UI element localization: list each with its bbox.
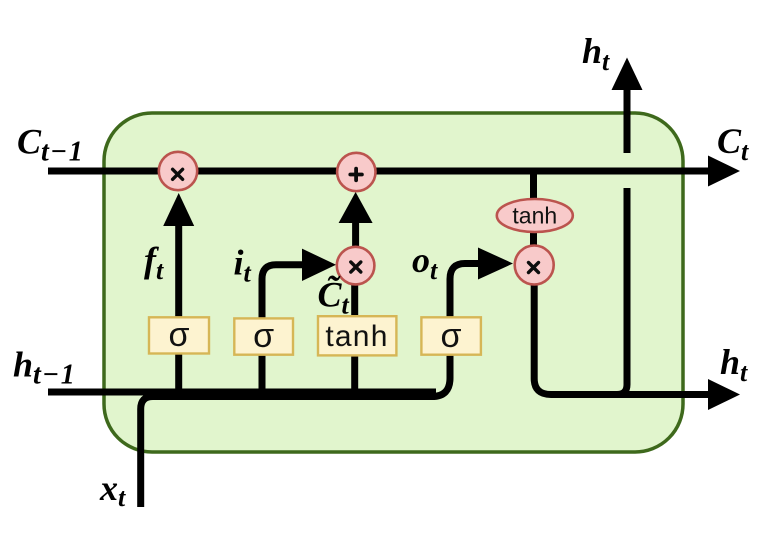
svg-text:Ct−1: Ct−1	[17, 121, 84, 167]
gate box: sigma (forget)	[149, 317, 209, 353]
svg-text:ht: ht	[582, 31, 610, 76]
svg-text:σ: σ	[253, 317, 274, 355]
wire: candidate multiply to add circle	[352, 220, 359, 250]
svg-text:σ: σ	[168, 316, 189, 354]
wire: x_t input path merging into bottom band and turning up as o gate line	[141, 264, 482, 508]
wire: output multiply down and right to h_t output	[534, 280, 710, 395]
wire: h_t branch going up (upper segment above C line)	[624, 88, 631, 153]
arrowhead: forget gate into multiply	[163, 193, 194, 226]
arrowhead: input gate into candidate multiply	[302, 249, 336, 281]
arrowhead: candidate into add	[339, 192, 373, 223]
gate box: sigma (output)	[421, 317, 481, 354]
LSTM cell body (rounded rectangle)	[104, 113, 683, 452]
op circle: forget multiply (x) on C line	[159, 152, 197, 190]
wire: branch from C line down to tanh ellipse	[530, 171, 537, 205]
wire: h input line (bottom horizontal from h_t-1)	[48, 389, 436, 396]
op circle: add (+) on C line	[337, 153, 375, 191]
op circle: candidate multiply (x)	[337, 247, 375, 285]
wire: candidate line up through tanh box to x circle	[351, 250, 358, 392]
wire: input gate line (i) with elbow to candidate multiply	[262, 265, 306, 392]
arrowhead: output gate into output multiply	[478, 248, 513, 280]
arrowhead: C_t output right	[708, 156, 740, 187]
wire: tanh ellipse to output multiply circle	[530, 230, 537, 250]
op circle: output multiply (x)	[515, 246, 554, 285]
svg-text:tanh: tanh	[512, 202, 557, 228]
svg-text:ht−1: ht−1	[13, 344, 76, 390]
arrowhead: h_t output top	[612, 58, 643, 91]
svg-text:Ct: Ct	[717, 121, 749, 166]
svg-text:tanh: tanh	[325, 320, 388, 353]
wire: h_t branch going up (lower segment with crossing gap)	[617, 188, 627, 395]
gate box: tanh (candidate)	[318, 316, 396, 355]
gate box: sigma (input)	[234, 318, 293, 354]
svg-text:xt: xt	[99, 468, 126, 512]
wire: cell state line C (top horizontal)	[48, 168, 710, 175]
svg-text:σ: σ	[440, 317, 461, 355]
wire: forget gate vertical line (f)	[175, 222, 182, 392]
arrowhead: h_t output right	[708, 379, 740, 410]
svg-text:ht: ht	[720, 342, 748, 387]
op ellipse: tanh on cell state	[497, 199, 573, 232]
